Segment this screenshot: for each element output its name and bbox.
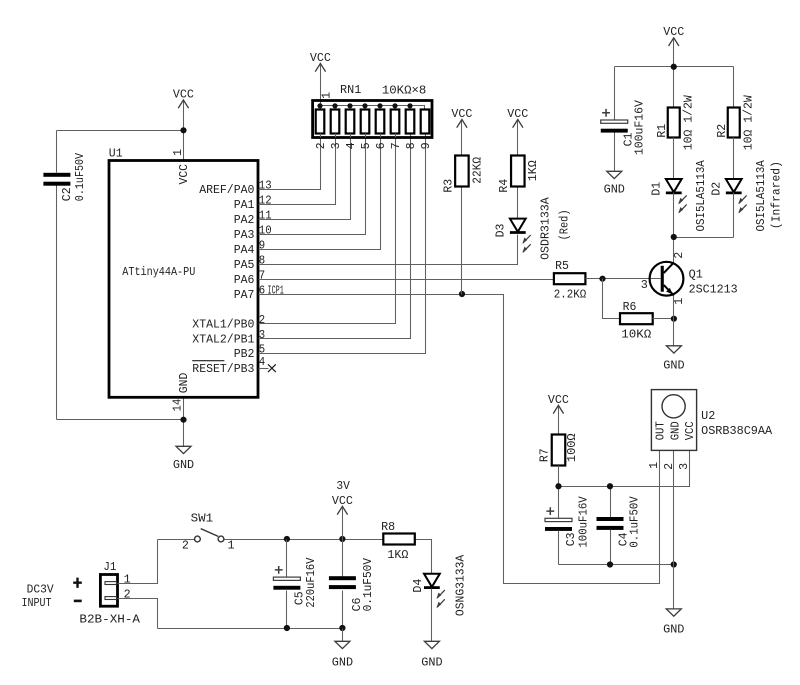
svg-text:ATtiny44A-PU: ATtiny44A-PU [122, 265, 195, 279]
svg-text:VCC: VCC [683, 421, 697, 440]
svg-text:GND: GND [604, 183, 625, 197]
svg-text:OSI5LA5113A: OSI5LA5113A [754, 159, 768, 231]
svg-text:10Ω 1/2W: 10Ω 1/2W [741, 94, 755, 150]
svg-text:10KΩ×8: 10KΩ×8 [382, 83, 426, 97]
svg-text:PA3: PA3 [234, 228, 255, 242]
svg-text:2.2KΩ: 2.2KΩ [554, 288, 587, 302]
svg-text:9: 9 [419, 142, 433, 149]
svg-text:5: 5 [259, 342, 265, 356]
svg-text:0.1uF50V: 0.1uF50V [73, 153, 87, 201]
svg-text:3: 3 [259, 328, 265, 342]
svg-text:3V: 3V [336, 479, 350, 493]
svg-text:VCC: VCC [507, 107, 528, 121]
svg-text:2: 2 [124, 587, 131, 601]
svg-text:GND: GND [177, 373, 191, 394]
svg-text:1: 1 [124, 572, 131, 586]
svg-text:4: 4 [344, 142, 358, 149]
svg-text:11: 11 [259, 208, 272, 222]
svg-text:D4: D4 [411, 579, 425, 593]
svg-text:1KΩ: 1KΩ [526, 160, 540, 181]
svg-text:7: 7 [389, 142, 403, 149]
svg-text:1: 1 [672, 298, 686, 305]
svg-text:OUT: OUT [653, 421, 667, 440]
svg-text:1: 1 [319, 92, 333, 99]
svg-text:GND: GND [421, 656, 442, 670]
svg-text:OSNG3133A: OSNG3133A [453, 554, 467, 616]
svg-text:10KΩ: 10KΩ [621, 328, 651, 342]
svg-text:R7: R7 [537, 448, 551, 462]
svg-text:14: 14 [171, 399, 185, 412]
svg-text:SW1: SW1 [191, 511, 214, 525]
svg-text:3: 3 [677, 463, 691, 470]
svg-text:(Infrared): (Infrared) [770, 161, 784, 229]
svg-text:U2: U2 [701, 409, 715, 423]
svg-text:R2: R2 [715, 124, 729, 138]
svg-text:XTAL2/PB1: XTAL2/PB1 [192, 332, 254, 346]
svg-text:VCC: VCC [310, 51, 331, 65]
svg-text:PA6: PA6 [234, 273, 255, 287]
svg-text:R6: R6 [623, 300, 637, 314]
svg-text:GND: GND [332, 656, 353, 670]
svg-text:2: 2 [182, 539, 189, 553]
svg-text:22KΩ: 22KΩ [471, 157, 485, 184]
svg-text:220uF16V: 220uF16V [304, 558, 318, 608]
svg-text:R4: R4 [497, 179, 511, 193]
svg-text:OSI5LA5113A: OSI5LA5113A [694, 159, 708, 231]
svg-text:D1: D1 [649, 182, 663, 196]
svg-text:0.1uF50V: 0.1uF50V [628, 496, 642, 547]
svg-text:PA4: PA4 [234, 243, 255, 257]
svg-text:R8: R8 [381, 520, 395, 534]
svg-text:RESET/PB3: RESET/PB3 [192, 362, 254, 376]
svg-text:VCC: VCC [177, 164, 191, 185]
svg-text:D3: D3 [493, 224, 507, 238]
svg-text:C2: C2 [60, 187, 74, 201]
svg-text:VCC: VCC [548, 393, 569, 407]
svg-text:VCC: VCC [173, 87, 194, 101]
svg-text:1: 1 [228, 539, 235, 553]
svg-text:D2: D2 [709, 182, 723, 196]
svg-text:2: 2 [662, 463, 676, 470]
svg-text:PA2: PA2 [234, 213, 255, 227]
svg-text:2: 2 [672, 252, 686, 259]
svg-text:ICP1: ICP1 [268, 283, 284, 297]
svg-text:R3: R3 [441, 179, 455, 193]
svg-text:1: 1 [171, 149, 185, 156]
svg-text:3: 3 [329, 142, 343, 149]
svg-text:100Ω: 100Ω [565, 433, 579, 462]
svg-text:INPUT: INPUT [22, 596, 52, 610]
svg-text:4: 4 [259, 355, 265, 369]
svg-text:9: 9 [259, 238, 265, 252]
svg-text:100uF16V: 100uF16V [633, 100, 647, 155]
svg-text:12: 12 [259, 193, 272, 207]
svg-text:0.1uF50V: 0.1uF50V [361, 558, 375, 611]
svg-text:2: 2 [259, 313, 265, 327]
svg-text:100uF16V: 100uF16V [576, 496, 590, 547]
svg-text:J1: J1 [103, 560, 116, 574]
svg-text:6: 6 [374, 142, 388, 149]
svg-text:XTAL1/PB0: XTAL1/PB0 [192, 317, 254, 331]
svg-text:DC3V: DC3V [27, 583, 54, 597]
svg-text:R1: R1 [655, 124, 669, 138]
svg-text:GND: GND [663, 623, 684, 637]
svg-text:R5: R5 [555, 259, 569, 273]
svg-text:1: 1 [647, 462, 661, 469]
svg-text:VCC: VCC [332, 494, 353, 508]
svg-text:8: 8 [404, 142, 418, 149]
svg-text:VCC: VCC [663, 25, 684, 39]
svg-text:GND: GND [668, 421, 682, 440]
svg-text:GND: GND [663, 359, 684, 373]
svg-text:RN1: RN1 [340, 83, 361, 97]
svg-text:(Red): (Red) [557, 209, 571, 240]
svg-text:VCC: VCC [451, 107, 472, 121]
svg-text:2SC1213: 2SC1213 [689, 282, 738, 296]
svg-text:10: 10 [259, 223, 272, 237]
svg-text:PB2: PB2 [234, 347, 255, 361]
svg-text:2: 2 [314, 142, 328, 149]
svg-text:PA5: PA5 [234, 258, 255, 272]
svg-text:3: 3 [641, 278, 648, 292]
svg-text:OSRB38C9AA: OSRB38C9AA [701, 424, 773, 438]
svg-text:8: 8 [259, 253, 265, 267]
svg-text:PA1: PA1 [234, 198, 255, 212]
svg-text:Q1: Q1 [689, 268, 703, 282]
svg-text:7: 7 [259, 268, 265, 282]
svg-text:U1: U1 [109, 146, 123, 160]
svg-text:PA7: PA7 [234, 288, 255, 302]
svg-text:5: 5 [359, 142, 373, 149]
svg-text:AREF/PA0: AREF/PA0 [199, 183, 254, 197]
svg-text:13: 13 [259, 178, 272, 192]
svg-text:OSDR3133A: OSDR3133A [539, 196, 553, 260]
svg-text:GND: GND [173, 458, 194, 472]
svg-text:6: 6 [259, 283, 265, 297]
svg-text:B2B-XH-A: B2B-XH-A [79, 613, 141, 627]
svg-text:10Ω 1/2W: 10Ω 1/2W [681, 94, 695, 150]
svg-text:1KΩ: 1KΩ [387, 548, 408, 562]
